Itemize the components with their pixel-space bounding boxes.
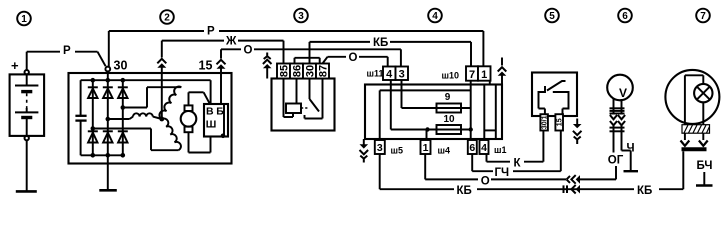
svg-text:86: 86	[291, 65, 303, 77]
svg-text:О: О	[244, 44, 253, 56]
svg-text:6: 6	[469, 142, 475, 154]
svg-text:Р: Р	[63, 45, 71, 57]
svg-text:О: О	[349, 52, 358, 64]
svg-text:4: 4	[432, 11, 438, 22]
svg-text:30: 30	[304, 65, 316, 77]
svg-text:Ш: Ш	[206, 119, 217, 131]
svg-text:2: 2	[164, 13, 170, 24]
svg-text:В: В	[206, 106, 214, 118]
svg-text:7: 7	[469, 69, 475, 81]
svg-text:3: 3	[298, 11, 304, 22]
svg-text:30: 30	[114, 58, 128, 72]
svg-text:ш4: ш4	[438, 145, 451, 155]
svg-text:3: 3	[377, 142, 383, 154]
svg-text:4: 4	[481, 142, 487, 154]
svg-text:ш5: ш5	[391, 145, 404, 155]
svg-text:ОГ: ОГ	[608, 155, 624, 167]
svg-text:4: 4	[386, 69, 393, 81]
svg-text:5: 5	[549, 11, 555, 22]
svg-text:КБ: КБ	[457, 185, 472, 197]
svg-text:ш1: ш1	[494, 145, 507, 155]
svg-text:О: О	[481, 175, 490, 187]
svg-text:+: +	[11, 58, 19, 73]
svg-text:К: К	[514, 157, 522, 169]
svg-text:КБ: КБ	[637, 185, 652, 197]
svg-text:Б: Б	[216, 106, 224, 118]
svg-text:9: 9	[445, 92, 451, 103]
svg-text:Ж: Ж	[225, 36, 237, 48]
svg-text:1: 1	[481, 69, 487, 81]
svg-text:3: 3	[399, 69, 405, 81]
svg-text:15: 15	[557, 118, 564, 126]
svg-text:87: 87	[317, 65, 329, 77]
svg-text:ш10: ш10	[442, 71, 460, 81]
svg-text:7: 7	[700, 11, 706, 22]
svg-text:1: 1	[21, 14, 27, 25]
svg-text:Р: Р	[207, 26, 215, 38]
svg-text:85: 85	[278, 65, 290, 77]
svg-text:30/1: 30/1	[542, 115, 549, 129]
svg-text:БЧ: БЧ	[697, 160, 713, 172]
svg-text:V: V	[619, 86, 627, 100]
svg-text:ГЧ: ГЧ	[495, 167, 510, 179]
svg-text:10: 10	[443, 114, 455, 125]
svg-text:КБ: КБ	[373, 37, 388, 49]
svg-text:15: 15	[199, 58, 213, 72]
svg-text:ш11: ш11	[367, 69, 384, 79]
svg-text:6: 6	[622, 11, 628, 22]
svg-text:1: 1	[423, 142, 429, 154]
